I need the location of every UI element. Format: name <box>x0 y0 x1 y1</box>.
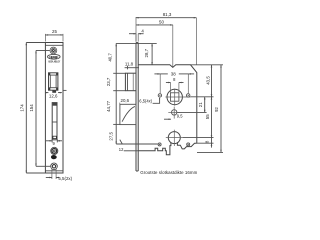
svg-text:5,5(2x): 5,5(2x) <box>58 176 72 181</box>
svg-text:21: 21 <box>198 102 203 107</box>
brand oval stamp <box>48 54 61 59</box>
ext case top right <box>191 64 224 66</box>
svg-text:81,3: 81,3 <box>163 12 172 17</box>
svg-text:25: 25 <box>52 29 57 34</box>
dim 9 deadbolt width <box>46 139 62 146</box>
dim 92 <box>214 65 221 153</box>
dim 11,8 <box>125 62 139 70</box>
svg-text:55: 55 <box>205 114 210 119</box>
dim 5,5(2x) <box>46 169 73 181</box>
latch bolt side view <box>125 73 136 91</box>
svg-text:40,7: 40,7 <box>107 53 112 62</box>
follower hub <box>165 89 190 106</box>
bottom tab holes <box>158 143 190 146</box>
svg-text:12,6: 12,6 <box>49 94 58 99</box>
svg-text:ASSA ABLOY: ASSA ABLOY <box>48 59 60 63</box>
deadbolt slot front <box>52 103 57 140</box>
faceplate inner bottom line <box>45 170 63 172</box>
svg-text:20,6: 20,6 <box>121 98 130 103</box>
svg-text:Grootste slotkastdikte 16mm: Grootste slotkastdikte 16mm <box>140 170 197 175</box>
faceplate side strip <box>136 43 138 171</box>
ext cylinder center right <box>183 137 214 139</box>
svg-text:44,77: 44,77 <box>106 100 111 112</box>
deadbolt side view box with arc <box>120 103 136 125</box>
case bottom contour right <box>177 142 196 149</box>
dim 21 <box>198 97 205 113</box>
dim 38 <box>154 72 194 94</box>
svg-text:28,7: 28,7 <box>144 48 149 57</box>
dim 154 screw distance <box>29 51 50 167</box>
latch opening front (I-beam shape) <box>49 73 58 90</box>
svg-text:27,5: 27,5 <box>109 131 114 140</box>
svg-text:174: 174 <box>19 104 24 112</box>
dim 12,6 latch width <box>46 93 62 99</box>
lock case outline top and right <box>138 65 197 143</box>
hole 9,5 with crosshair <box>164 107 183 120</box>
dim 81,3 case depth <box>136 12 196 65</box>
svg-text:50: 50 <box>159 20 164 25</box>
dim 50 backset <box>136 17 173 67</box>
dim 25 plate width <box>45 29 63 41</box>
middle screw hole <box>51 147 58 154</box>
latch projection stub <box>63 89 67 91</box>
plate top ext line both sides <box>116 43 157 45</box>
dim 28,7 <box>144 44 152 65</box>
ext bottom 92 <box>197 151 223 153</box>
faceplate inner top line <box>45 44 63 46</box>
case bottom contour left <box>138 142 171 154</box>
cylinder hole <box>166 130 183 146</box>
follower side holes 6,5 <box>158 94 190 97</box>
ext case bottom right <box>197 142 214 144</box>
dim 8 follower square <box>166 77 184 92</box>
top screw hole <box>50 47 57 54</box>
svg-text:9,5: 9,5 <box>177 114 183 119</box>
dim 174 total height <box>19 43 45 174</box>
label 6,5(4x) <box>139 97 160 103</box>
svg-text:NEMEF: NEMEF <box>49 56 58 60</box>
svg-text:38: 38 <box>171 72 176 77</box>
svg-text:23,7: 23,7 <box>106 77 111 86</box>
svg-text:43,5: 43,5 <box>205 76 210 85</box>
svg-text:12: 12 <box>119 147 124 152</box>
svg-text:11,8: 11,8 <box>125 62 134 67</box>
svg-text:6,5(4x): 6,5(4x) <box>139 99 152 104</box>
svg-text:92: 92 <box>214 107 219 112</box>
ext 9,5 hole right <box>177 111 206 113</box>
dim 43,5 55 8 column <box>205 65 212 148</box>
bottom screw hole <box>51 163 58 170</box>
latch bottom guide tab <box>52 90 56 92</box>
svg-text:154: 154 <box>29 104 34 112</box>
black blob mark <box>51 155 57 159</box>
dim 4 faceplate thickness <box>129 28 144 41</box>
ext follower center right <box>190 96 213 98</box>
left stacked dim column 40,7 / 23,7 / 44,77 / 27,5 with 12 leader <box>106 44 158 152</box>
faceplate front view outline <box>45 43 63 174</box>
